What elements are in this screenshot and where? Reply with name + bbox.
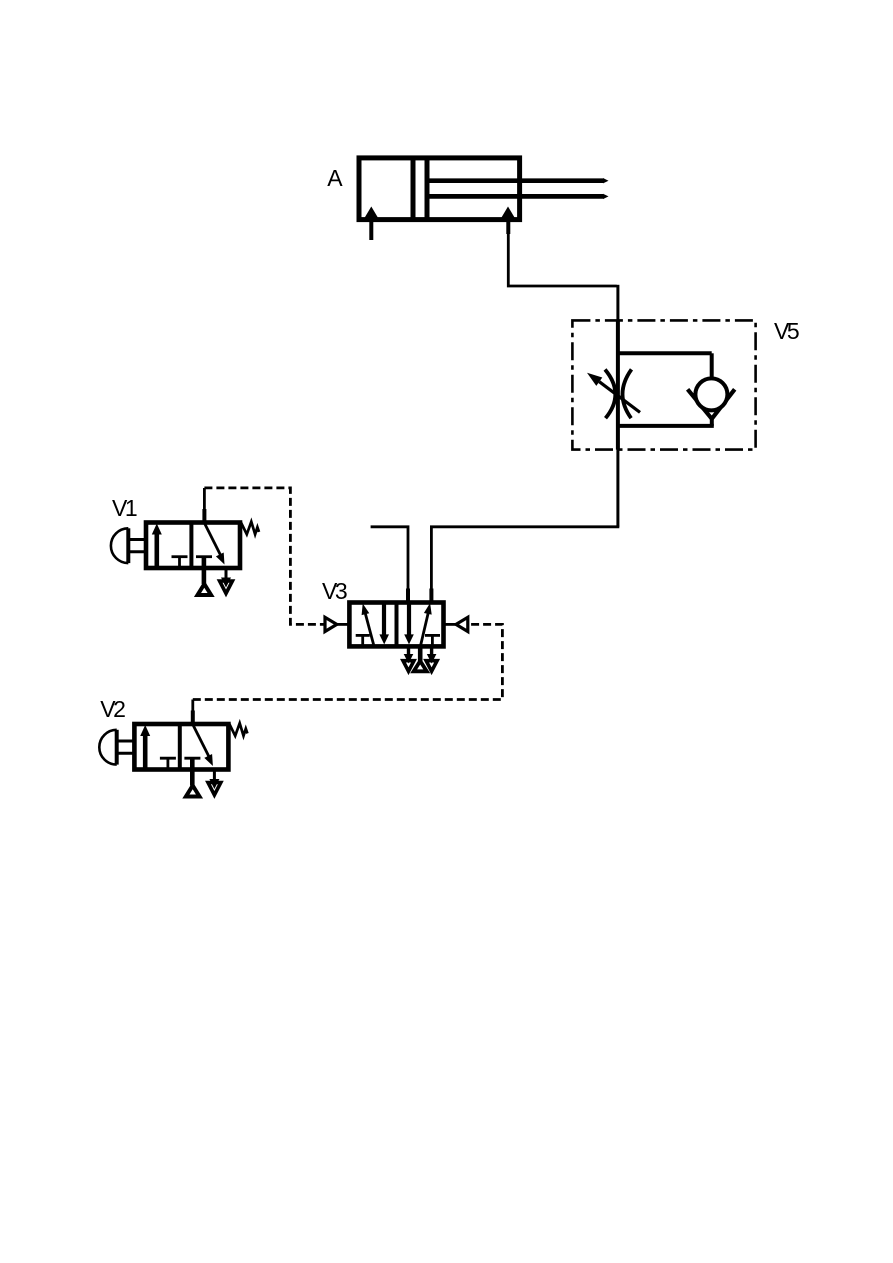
V2 top port stub bbox=[191, 711, 195, 725]
V3 exhaust port 3 bbox=[430, 646, 433, 656]
V1 divider bbox=[189, 523, 193, 569]
V3 left box diagonal 1-4 bbox=[365, 613, 374, 645]
V3 right box blocked port T bbox=[425, 634, 440, 637]
V3 right box down path 4-5 bbox=[407, 603, 411, 636]
V5 check valve circle bbox=[695, 378, 727, 410]
V5 throttle arcs bbox=[605, 369, 632, 418]
V1 exhaust port 3 bbox=[225, 568, 228, 579]
V2 right box blocked port T bbox=[184, 757, 200, 760]
V3 top port stubs bbox=[406, 589, 410, 603]
valve V2 3/2 pushbutton bbox=[99, 711, 247, 797]
V1 right box blocked port T bbox=[196, 555, 212, 558]
V5 bypass line bottom bbox=[710, 416, 714, 426]
V2 left box flow arrow bbox=[143, 734, 148, 769]
V2 supply port 1 bbox=[190, 758, 195, 785]
V1 left box blocked port T bbox=[172, 555, 188, 558]
V1 supply port 1 bbox=[202, 557, 207, 584]
V2 pilot line to V3 (dashed) bbox=[191, 700, 194, 725]
V3 right box diagonal 1-2 bbox=[421, 613, 429, 645]
V2 body bbox=[134, 724, 228, 770]
svg-text:V3: V3 bbox=[322, 578, 347, 604]
cylinder A right port arrow bbox=[501, 207, 514, 235]
V5 throttle adjust arrow bbox=[587, 373, 640, 413]
V1 pilot line to V3 (dashed) bbox=[203, 488, 206, 523]
V3 divider bbox=[395, 603, 399, 647]
V1 body bbox=[146, 523, 240, 569]
V1 return spring bbox=[241, 522, 260, 535]
cylinder A body bbox=[359, 158, 520, 220]
V3 left box down path 2-3 bbox=[382, 603, 386, 635]
V3 right pilot triangle bbox=[456, 617, 468, 631]
V2 left box blocked port T bbox=[160, 757, 176, 760]
V5 bypass line right upper bbox=[710, 353, 714, 381]
cylinder A left port arrow bbox=[365, 207, 378, 241]
V3 supply port 1 bbox=[418, 646, 423, 661]
V3 left pilot triangle bbox=[325, 617, 337, 631]
svg-text:V5: V5 bbox=[774, 318, 799, 344]
wire stub at V3 port 4 bbox=[371, 527, 408, 603]
V2 pushbutton bbox=[115, 730, 119, 765]
V3 left box blocked port T bbox=[356, 634, 370, 637]
svg-text:V2: V2 bbox=[100, 696, 125, 722]
V1 top port stub bbox=[202, 509, 206, 523]
V2 divider bbox=[178, 724, 182, 770]
V2 right box diagonal flow bbox=[193, 725, 210, 759]
V1 right box diagonal flow bbox=[204, 523, 221, 557]
valve V1 3/2 pushbutton bbox=[111, 509, 259, 595]
V5 bypass line top bbox=[618, 351, 712, 355]
valve V3 5/2 double pilot bbox=[325, 589, 468, 672]
cylinder A piston rod bbox=[427, 178, 609, 199]
V3 body bbox=[349, 603, 443, 647]
V5 enclosure dashed box bbox=[572, 320, 755, 449]
V5 check valve seat bbox=[688, 389, 735, 419]
wire from cylinder right port to V5 to V3 port 2 bbox=[508, 232, 616, 286]
V1 pushbutton bbox=[126, 528, 130, 563]
V2 exhaust port 3 bbox=[213, 770, 216, 781]
V3 exhaust port 5 bbox=[407, 646, 410, 656]
V1 left box flow arrow bbox=[155, 532, 160, 567]
svg-text:V1: V1 bbox=[112, 495, 137, 521]
V2 return spring bbox=[229, 723, 248, 736]
